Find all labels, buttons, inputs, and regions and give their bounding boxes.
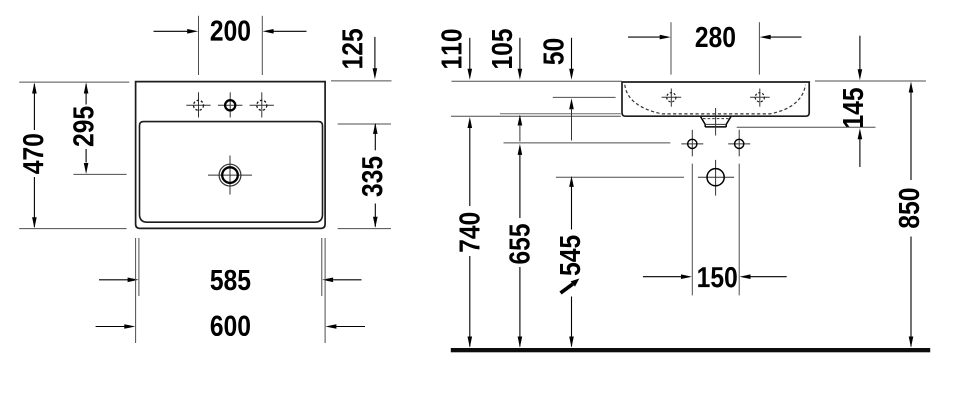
dimension 105 label and down arrow [492,29,522,80]
right view: fixing hole left (dashed) [662,89,682,107]
545 reference line [556,176,684,178]
dimension 600 extension lines [136,238,326,343]
right view: drain outlet flange under basin [701,117,731,127]
dimension 200 extension lines [199,16,263,75]
right view: fixing hole right (dashed) [750,89,770,107]
dimension 200 arrows and label [154,20,307,41]
dimension 470 vertical line, arrows, label [23,83,44,229]
105 dimension up arrow below reference [518,115,523,142]
dimension 470 extension lines [19,82,129,229]
top edge reference line (right of basin, to 850) [815,80,926,82]
dimension 150 arrows and label [643,267,787,288]
left view: tap hole left (dashed, optional) [186,92,210,117]
right view: vertical centreline through drain [715,108,717,136]
left view: washbasin outer rim outline [136,82,326,229]
right view: basin interior dashed contour [625,85,806,114]
dimension 585 arrows and label [99,270,362,291]
floor line [451,348,930,352]
dimension 280 arrows and label [628,27,802,48]
left view: washbasin inner rim [140,122,323,223]
dimension 545 line, arrows, label [560,176,580,348]
50 reference line [553,96,616,98]
adjustable-height arrow glyph next to 545 [561,279,580,294]
dimension 655 line, arrows, label [509,144,530,348]
left view: drain hole with crosshair [208,156,252,195]
right view: waste pipe hole with crosshair [698,160,734,196]
top edge reference line (left of basin) [452,80,622,82]
dimension 295 reference line (drain centre) [73,173,126,175]
dimension 335 extension lines [338,124,391,229]
right view: basin body outline [622,82,809,116]
50 dimension up arrow below reference [569,98,574,140]
dimension 145 arrows and label [843,36,863,167]
dimension 740 line, arrows, label [459,117,480,348]
dimension 110 label and down arrow [441,29,472,79]
dimension 600 arrows and label [96,316,365,337]
dimension 295 vertical line, arrows, label [73,83,94,175]
655 reference line [504,142,671,144]
145 lower reference line (flange bottom) [737,126,876,128]
left view: tap hole centre (solid) [218,92,242,117]
right view: supply hole left with crosshair [681,130,703,157]
right view: supply hole right with crosshair [728,130,750,157]
bottom edge reference line (105/110) [451,114,621,116]
dimension 125 line with down arrow [342,29,377,79]
top edge extension line (right of left view) [331,80,392,82]
dimension 50 label and down arrow [543,38,574,80]
dimension 585 extension lines [139,238,322,296]
dimension 280 extension lines [671,22,759,74]
left view: tap hole right (dashed, optional) [250,92,274,117]
dimension 150 extension lines [692,164,739,296]
dimension 850 line, arrows, label [899,82,920,348]
dimension 335 vertical line, arrows, label [362,123,383,228]
